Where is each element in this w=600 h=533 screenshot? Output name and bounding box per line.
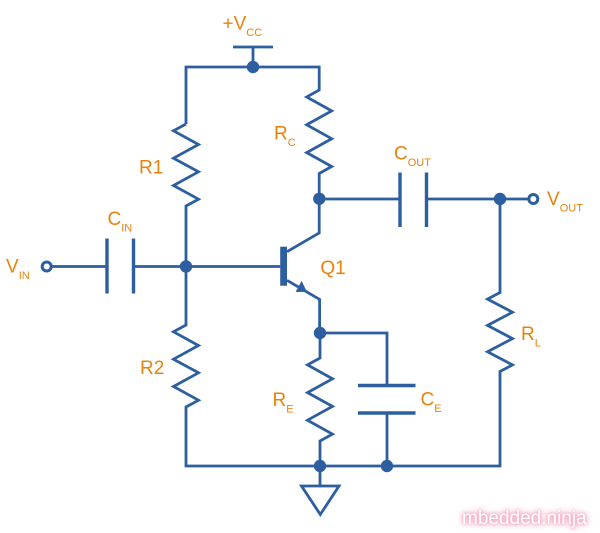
svg-text:R2: R2 [140,358,164,379]
svg-text:Q1: Q1 [320,258,345,279]
svg-text:VOUT: VOUT [547,189,583,215]
svg-text:CE: CE [421,390,442,416]
svg-text:COUT: COUT [394,144,431,170]
svg-text:+VCC: +VCC [223,14,263,40]
svg-text:RC: RC [274,124,296,150]
svg-text:RE: RE [273,390,294,416]
svg-text:R1: R1 [139,158,163,179]
svg-text:CIN: CIN [108,209,133,235]
svg-text:RL: RL [521,324,541,350]
svg-text:mbedded.ninja: mbedded.ninja [462,508,587,529]
svg-text:VIN: VIN [6,257,30,283]
